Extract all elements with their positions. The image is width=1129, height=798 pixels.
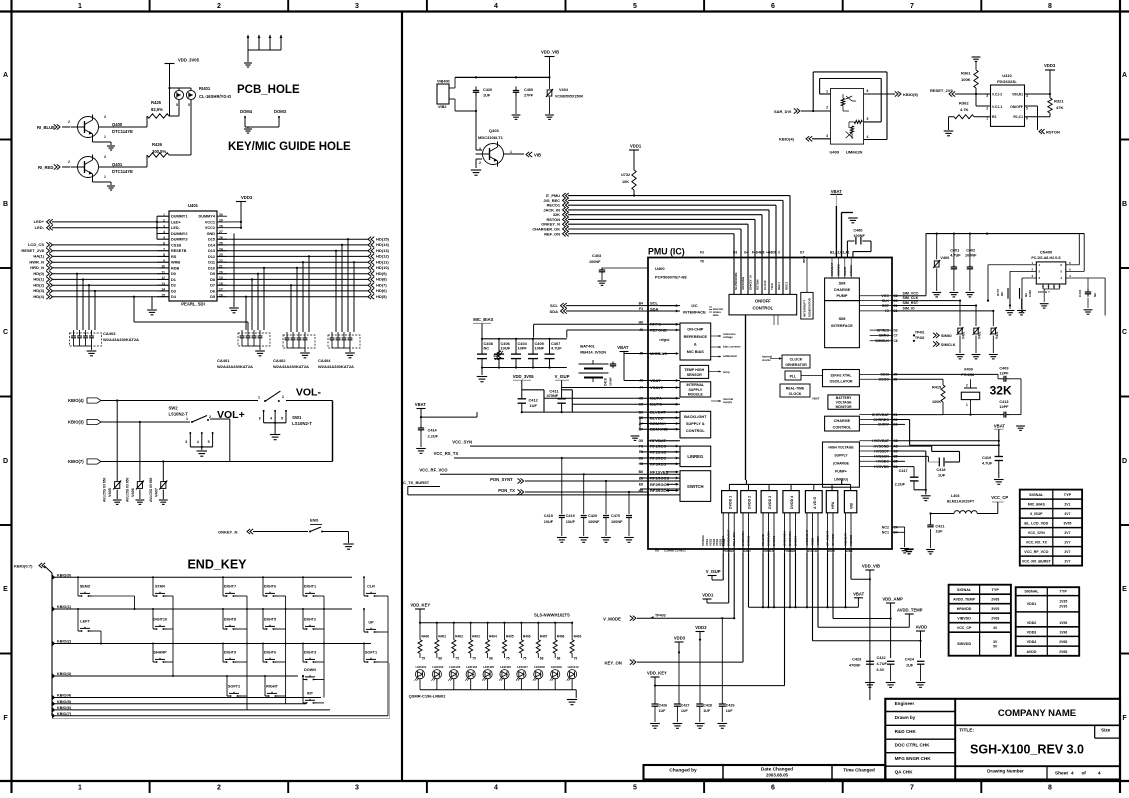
svg-text:R1,C1: R1,C1 [1013, 115, 1023, 119]
svg-text:VBAT: VBAT [617, 345, 629, 350]
svg-text:CL-16SHR/YG-D: CL-16SHR/YG-D [199, 94, 231, 99]
svg-text:SHARP: SHARP [153, 651, 167, 655]
svg-text:1UF: 1UF [938, 474, 946, 478]
svg-text:68: 68 [557, 657, 561, 661]
svg-text:F8: F8 [639, 450, 643, 454]
svg-text:LED-: LED- [171, 226, 181, 230]
svg-text:470NF: 470NF [849, 664, 861, 668]
svg-text:SDA: SDA [650, 306, 659, 311]
svg-text:SIM_IO: SIM_IO [903, 307, 915, 311]
svg-text:HD(0): HD(0) [33, 271, 44, 276]
svg-text:C400: C400 [524, 88, 533, 92]
svg-text:HD(1): HD(1) [33, 277, 44, 282]
svg-text:R402: R402 [455, 635, 463, 639]
svg-text:2V7: 2V7 [1064, 531, 1070, 535]
svg-text:C6: C6 [894, 339, 898, 343]
svg-text:1: 1 [78, 784, 82, 791]
svg-text:VCC2: VCC2 [205, 226, 215, 230]
svg-text:LED408: LED408 [534, 665, 545, 669]
svg-text:SIGNAL: SIGNAL [1024, 590, 1039, 594]
svg-text:V403: V403 [995, 331, 999, 339]
svg-text:DIGIT1: DIGIT1 [304, 585, 316, 589]
svg-text:4.7UF: 4.7UF [982, 462, 993, 466]
svg-text:VDD_3V05: VDD_3V05 [513, 374, 535, 379]
svg-text:2V68: 2V68 [991, 617, 999, 621]
svg-text:HD(14): HD(14) [376, 242, 390, 247]
svg-text:DOM4: DOM4 [240, 109, 253, 114]
svg-text:U732: U732 [621, 173, 630, 177]
svg-text:100K: 100K [961, 77, 971, 82]
svg-text:PCB_HOLE: PCB_HOLE [237, 84, 300, 96]
svg-text:2V1: 2V1 [1064, 503, 1070, 507]
svg-text:D7: D7 [800, 251, 804, 255]
svg-text:10NF: 10NF [535, 346, 545, 351]
svg-text:D: D [1122, 458, 1127, 465]
svg-text:NC: NC [484, 346, 490, 351]
svg-text:75: 75 [472, 657, 476, 661]
svg-text:100NF: 100NF [853, 234, 865, 238]
svg-text:E6: E6 [639, 476, 643, 480]
svg-text:TP401: TP401 [915, 331, 925, 335]
svg-text:&: & [694, 343, 697, 347]
svg-text:D3: D3 [894, 328, 898, 332]
svg-text:5: 5 [281, 417, 283, 421]
svg-text:B7: B7 [639, 428, 643, 432]
svg-text:6: 6 [771, 3, 775, 10]
svg-text:temp: temp [723, 370, 730, 374]
svg-text:Drawing Number: Drawing Number [987, 769, 1024, 774]
svg-text:C417: C417 [899, 469, 908, 473]
svg-text:VDD_3V05: VDD_3V05 [178, 58, 200, 63]
svg-text:5: 5 [1069, 267, 1071, 271]
svg-text:+G8D8: +G8D8 [766, 251, 777, 255]
svg-text:H8: H8 [639, 489, 643, 493]
svg-text:C421: C421 [935, 525, 944, 529]
svg-text:C427: C427 [681, 704, 690, 708]
svg-text:4.7UF: 4.7UF [950, 254, 961, 258]
svg-text:VDD3: VDD3 [695, 625, 707, 630]
svg-text:DUMMY3: DUMMY3 [171, 238, 187, 242]
svg-text:C428: C428 [703, 704, 712, 708]
svg-text:TYP: TYP [992, 588, 1000, 592]
svg-text:DOWN: DOWN [304, 668, 316, 672]
svg-text:PCF50607/E7-N8: PCF50607/E7-N8 [655, 275, 687, 280]
svg-text:INTERNAL: INTERNAL [686, 383, 705, 387]
svg-text:3: 3 [778, 251, 780, 255]
svg-text:5: 5 [1026, 107, 1028, 111]
svg-text:KEY/MIC GUIDE HOLE: KEY/MIC GUIDE HOLE [228, 141, 351, 153]
svg-text:2: 2 [1039, 269, 1041, 273]
svg-text:2: 2 [217, 3, 221, 10]
svg-text:F: F [3, 715, 8, 722]
svg-text:ONKEY_N: ONKEY_N [218, 530, 237, 535]
svg-text:DVDD 3: DVDD 3 [768, 496, 772, 509]
svg-text:TP403: TP403 [655, 614, 666, 618]
svg-text:Changed by: Changed by [669, 768, 697, 774]
svg-text:AVDD_TEMP: AVDD_TEMP [953, 598, 976, 602]
svg-text:3V05: 3V05 [1063, 522, 1071, 526]
svg-text:DIGIT6: DIGIT6 [264, 651, 276, 655]
svg-text:VDD_VIB: VDD_VIB [862, 564, 880, 569]
svg-text:HPAVDD: HPAVDD [957, 607, 972, 611]
svg-text:calibration: calibration [723, 354, 737, 358]
svg-text:2: 2 [217, 784, 221, 791]
svg-text:D3: D3 [733, 251, 737, 255]
svg-text:5: 5 [188, 103, 190, 107]
svg-text:VBAT: VBAT [415, 402, 427, 407]
svg-text:C480: C480 [853, 229, 862, 233]
svg-text:J4: J4 [639, 386, 643, 390]
svg-text:100NF: 100NF [611, 520, 623, 524]
svg-text:RSTON: RSTON [1046, 130, 1060, 135]
svg-text:470NF: 470NF [547, 393, 559, 398]
svg-text:SWITCH: SWITCH [687, 484, 704, 489]
svg-text:SIM_RST: SIM_RST [903, 301, 919, 305]
svg-text:DIGIT5: DIGIT5 [264, 618, 276, 622]
svg-text:2.2UF: 2.2UF [895, 483, 906, 487]
svg-text:DTC114YE: DTC114YE [112, 169, 133, 174]
svg-text:R400: R400 [422, 635, 430, 639]
svg-text:68: 68 [489, 657, 493, 661]
svg-text:RF2REG: RF2REG [650, 456, 666, 461]
svg-text:LS10N2-T: LS10N2-T [292, 421, 312, 426]
svg-text:TITLE:: TITLE: [959, 728, 974, 734]
svg-text:VIBVDD: VIBVDD [957, 617, 971, 621]
svg-text:Time Changed: Time Changed [843, 768, 875, 773]
svg-text:4: 4 [270, 417, 272, 421]
svg-text:1: 1 [966, 403, 968, 407]
svg-text:VOL-: VOL- [296, 386, 322, 398]
svg-text:2V7: 2V7 [1064, 541, 1070, 545]
svg-text:MIC_BIAS: MIC_BIAS [473, 317, 493, 322]
svg-text:TYP: TYP [1060, 590, 1068, 594]
svg-text:LCD_CS: LCD_CS [28, 242, 44, 247]
svg-text:R401: R401 [438, 635, 446, 639]
svg-text:HD(15): HD(15) [376, 237, 390, 242]
svg-text:R404: R404 [489, 635, 497, 639]
svg-text:NC: NC [1000, 291, 1004, 296]
svg-text:R426: R426 [152, 142, 163, 147]
svg-text:R403: R403 [472, 635, 480, 639]
svg-text:ISUPD: ISUPD [650, 402, 662, 407]
svg-text:C412: C412 [529, 398, 539, 403]
svg-text:C413: C413 [999, 400, 1008, 404]
svg-text:1UF: 1UF [681, 709, 689, 713]
svg-text:RS: RS [171, 255, 177, 259]
svg-text:VSAVE: VSAVE [650, 385, 664, 390]
svg-text:2: 2 [826, 106, 828, 110]
svg-text:C402: C402 [966, 249, 975, 253]
svg-text:V.C1-1: V.C1-1 [992, 105, 1002, 109]
svg-text:HD(12): HD(12) [376, 254, 390, 259]
svg-text:B2B1: B2B1 [845, 549, 853, 553]
svg-text:LED409: LED409 [551, 665, 562, 669]
svg-text:BL_LCD_VDD: BL_LCD_VDD [1024, 522, 1048, 526]
svg-text:6: 6 [771, 784, 775, 791]
svg-text:4: 4 [1026, 94, 1028, 98]
svg-text:1: 1 [104, 175, 106, 179]
svg-text:10UF: 10UF [501, 346, 511, 351]
svg-text:2V35: 2V35 [1059, 604, 1067, 608]
svg-text:QSMR-C196-LRB02: QSMR-C196-LRB02 [409, 694, 447, 699]
svg-text:H6: H6 [639, 320, 643, 324]
svg-text:D5: D5 [210, 295, 215, 299]
svg-text:NC2: NC2 [882, 525, 889, 529]
svg-text:G8: G8 [638, 439, 643, 443]
svg-text:3: 3 [355, 784, 359, 791]
svg-text:V_ISUP: V_ISUP [555, 374, 570, 379]
svg-text:MODULE: MODULE [688, 393, 704, 397]
svg-text:3: 3 [104, 115, 106, 119]
svg-text:LS10N2-T: LS10N2-T [169, 412, 189, 417]
svg-text:2V68: 2V68 [1059, 650, 1067, 654]
svg-text:BLM11A102SPT: BLM11A102SPT [947, 500, 975, 504]
svg-text:82,5%: 82,5% [151, 107, 163, 112]
svg-text:4.7UF: 4.7UF [551, 346, 562, 351]
svg-text:R362: R362 [959, 101, 969, 106]
svg-text:75: 75 [506, 657, 510, 661]
svg-text:V402: V402 [978, 331, 982, 339]
svg-text:F3: F3 [639, 307, 643, 311]
svg-text:supply: supply [723, 400, 732, 404]
svg-text:CONTROL: CONTROL [752, 306, 773, 311]
svg-text:KBIO(2): KBIO(2) [57, 640, 72, 644]
svg-text:COMPANY NAME: COMPANY NAME [998, 708, 1076, 719]
svg-text:J3: J3 [639, 379, 643, 383]
svg-text:CLR: CLR [367, 585, 375, 589]
svg-text:Sheet: Sheet [1055, 770, 1068, 776]
svg-text:D8: D8 [210, 278, 215, 282]
svg-text:PLL: PLL [790, 375, 798, 379]
svg-text:VIB2: VIB2 [438, 105, 446, 109]
svg-text:KBIO(3): KBIO(3) [57, 672, 72, 676]
svg-text:1: 1 [986, 117, 988, 121]
svg-text:HD(5): HD(5) [376, 294, 387, 299]
svg-text:SW1: SW1 [292, 415, 302, 420]
svg-text:D12: D12 [208, 255, 215, 259]
svg-text:SLS-NWWH102TS: SLS-NWWH102TS [534, 613, 570, 618]
svg-text:B8A8: B8A8 [827, 549, 835, 553]
svg-text:KBIO(5): KBIO(5) [903, 92, 919, 97]
svg-text:LED410: LED410 [568, 665, 579, 669]
svg-text:C423: C423 [852, 658, 861, 662]
svg-text:R2: R2 [992, 115, 996, 119]
svg-text:2V68: 2V68 [1059, 640, 1067, 644]
svg-text:7: 7 [910, 784, 914, 791]
svg-text:PMU (IC): PMU (IC) [648, 247, 685, 257]
svg-text:VDD1: VDD1 [1027, 602, 1037, 606]
svg-text:RB414_IV02N: RB414_IV02N [580, 350, 606, 355]
svg-text:C481: C481 [1028, 289, 1032, 297]
svg-text:1V96: 1V96 [1059, 621, 1067, 625]
svg-text:VCC1: VCC1 [205, 220, 215, 224]
svg-text:NC: NC [1093, 292, 1097, 297]
svg-text:clocks: clocks [762, 358, 771, 362]
svg-text:STAR: STAR [155, 585, 165, 589]
svg-text:MONITOR: MONITOR [836, 405, 852, 409]
svg-text:2003.08.05: 2003.08.05 [766, 773, 789, 778]
svg-text:100NF: 100NF [609, 377, 613, 386]
svg-text:3: 3 [355, 3, 359, 10]
svg-text:4.7K: 4.7K [960, 107, 969, 112]
svg-text:2: 2 [68, 160, 70, 164]
svg-text:3: 3 [185, 440, 187, 444]
svg-text:100NF: 100NF [588, 520, 600, 524]
svg-text:Drawn by: Drawn by [895, 715, 916, 720]
svg-text:F: F [1122, 715, 1127, 722]
svg-text:5: 5 [633, 3, 637, 10]
svg-text:8: 8 [1048, 3, 1052, 10]
svg-text:75: 75 [422, 657, 426, 661]
svg-text:LED402: LED402 [432, 665, 443, 669]
svg-text:68: 68 [438, 657, 442, 661]
svg-text:A: A [1122, 72, 1127, 79]
svg-text:MIC BIAS: MIC BIAS [687, 350, 705, 354]
svg-text:REF_ON: REF_ON [544, 231, 560, 236]
svg-text:4: 4 [1060, 276, 1062, 280]
svg-text:1UF: 1UF [726, 709, 734, 713]
svg-text:C470: C470 [611, 514, 620, 518]
svg-text:I2C: I2C [691, 303, 697, 308]
svg-text:75: 75 [455, 657, 459, 661]
svg-text:RESET_2V9: RESET_2V9 [930, 88, 953, 93]
svg-text:KBIO(1): KBIO(1) [57, 605, 72, 609]
svg-text:VBAT: VBAT [853, 591, 865, 596]
svg-text:5: 5 [867, 117, 869, 121]
svg-text:WRB: WRB [171, 261, 180, 265]
svg-text:VDD3: VDD3 [1044, 63, 1056, 68]
svg-text:UP: UP [368, 621, 374, 625]
svg-text:100K: 100K [932, 400, 941, 404]
svg-text:R408: R408 [557, 635, 565, 639]
svg-text:6: 6 [867, 89, 869, 93]
svg-text:HIGH VOLTAGE: HIGH VOLTAGE [828, 446, 854, 450]
svg-text:V404: V404 [559, 88, 569, 92]
svg-text:UM6K2N: UM6K2N [846, 150, 863, 155]
svg-text:CS1B: CS1B [171, 243, 181, 247]
svg-text:D0: D0 [171, 272, 176, 276]
svg-text:G: G [1042, 285, 1044, 289]
svg-text:R&D CHK: R&D CHK [895, 729, 917, 734]
svg-text:VCC_SYN: VCC_SYN [1028, 531, 1045, 535]
svg-text:AVLC5S 63 650: AVLC5S 63 650 [149, 477, 153, 502]
svg-text:D13: D13 [208, 249, 215, 253]
svg-text:10PF: 10PF [518, 346, 528, 351]
svg-text:V_MODE: V_MODE [603, 617, 621, 622]
svg-text:12PF: 12PF [999, 372, 1009, 376]
svg-text:C424: C424 [905, 658, 915, 662]
svg-text:3: 3 [259, 417, 261, 421]
svg-text:KBIO(4): KBIO(4) [57, 694, 72, 698]
svg-text:TP402: TP402 [915, 336, 925, 340]
svg-text:VBAT: VBAT [812, 397, 820, 401]
svg-text:J5: J5 [639, 352, 643, 356]
svg-text:R425: R425 [151, 100, 162, 105]
svg-text:1UF: 1UF [906, 664, 914, 668]
svg-text:REAL-TIME: REAL-TIME [786, 387, 805, 391]
svg-text:GENERATOR: GENERATOR [785, 363, 807, 367]
svg-text:12PF: 12PF [999, 405, 1009, 409]
svg-text:4: 4 [1069, 274, 1071, 278]
svg-text:HD(9): HD(9) [376, 271, 387, 276]
svg-text:MFG ENGR CHK: MFG ENGR CHK [895, 756, 932, 761]
svg-text:VCC_RF_VCO: VCC_RF_VCO [1024, 550, 1048, 554]
svg-text:TYP: TYP [1064, 493, 1072, 497]
svg-text:VCC_RX_TX: VCC_RX_TX [1026, 541, 1048, 545]
svg-text:SUPPLY: SUPPLY [834, 454, 848, 458]
svg-text:Q400: Q400 [112, 122, 123, 127]
svg-text:bias currents: bias currents [723, 345, 741, 349]
svg-text:PON_SYNT: PON_SYNT [490, 477, 513, 482]
svg-text:B6: B6 [639, 410, 643, 414]
svg-text:data: data [713, 313, 719, 317]
svg-text:Engineer: Engineer [895, 701, 915, 706]
svg-text:B: B [3, 201, 8, 208]
svg-text:SIM: SIM [839, 317, 846, 321]
svg-text:2: 2 [282, 395, 284, 399]
svg-text:SIM: SIM [839, 282, 846, 286]
svg-text:ON-CHIP: ON-CHIP [687, 328, 703, 332]
svg-text:G8: G8 [638, 456, 643, 460]
svg-text:U409: U409 [830, 150, 840, 155]
svg-text:4V: 4V [993, 626, 998, 630]
svg-text:10UF: 10UF [566, 520, 576, 524]
svg-text:3V05: 3V05 [991, 607, 999, 611]
svg-text:2: 2 [1032, 267, 1034, 271]
svg-text:KBIO(0): KBIO(0) [57, 573, 72, 577]
svg-text:SIM_CLK: SIM_CLK [903, 296, 919, 300]
svg-text:CLOCK: CLOCK [789, 392, 802, 396]
svg-text:BLVDD: BLVDD [650, 415, 664, 420]
svg-text:RF3REG: RF3REG [650, 461, 666, 466]
svg-text:4.7UF: 4.7UF [877, 662, 888, 666]
svg-text:G6: G6 [655, 549, 659, 553]
svg-text:SCL: SCL [650, 301, 659, 306]
svg-text:F3: F3 [700, 251, 704, 255]
svg-text:1: 1 [258, 396, 260, 400]
svg-text:X400: X400 [964, 368, 973, 372]
svg-text:KBIO(6): KBIO(6) [57, 706, 72, 710]
svg-text:VDD2: VDD2 [1027, 621, 1037, 625]
svg-text:RF1DNS: RF1DNS [650, 449, 666, 454]
svg-text:T6: T6 [700, 260, 704, 264]
svg-text:D1: D1 [171, 278, 176, 282]
svg-text:32KHz XTAL: 32KHz XTAL [830, 374, 852, 378]
svg-text:5: 5 [1060, 269, 1062, 273]
svg-text:ONKEY_N: ONKEY_N [748, 275, 752, 290]
svg-text:47K: 47K [1056, 105, 1063, 110]
svg-text:DVDD 2: DVDD 2 [748, 496, 752, 509]
svg-text:F4D4B8: F4D4B8 [752, 251, 764, 255]
svg-text:5: 5 [208, 440, 210, 444]
svg-text:NC1: NC1 [882, 531, 889, 535]
svg-text:Q403: Q403 [489, 128, 500, 133]
svg-text:1UF: 1UF [483, 94, 491, 98]
svg-text:B5: B5 [639, 416, 643, 420]
svg-text:LED-: LED- [35, 225, 45, 230]
svg-text:SIMCLK: SIMCLK [941, 343, 956, 347]
svg-text:F6: F6 [639, 444, 643, 448]
svg-text:DUMMY2: DUMMY2 [171, 232, 187, 236]
svg-text:LEFT: LEFT [80, 620, 90, 624]
svg-text:D4: D4 [171, 295, 177, 299]
svg-text:R409: R409 [574, 635, 582, 639]
svg-text:H8: H8 [639, 462, 643, 466]
svg-text:(CHARGE: (CHARGE [833, 462, 850, 466]
svg-text:U410: U410 [1002, 73, 1012, 78]
svg-text:CLOCK: CLOCK [790, 358, 803, 362]
svg-text:SCL: SCL [550, 303, 559, 308]
